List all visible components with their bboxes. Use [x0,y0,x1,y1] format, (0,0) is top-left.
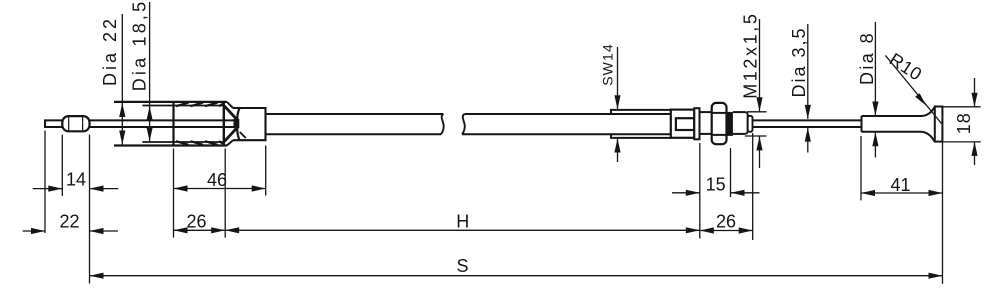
dimension line Dia 18,5 [147,2,153,142]
thread band [727,112,733,136]
housing internal divider [172,102,174,146]
extension line x730 [730,148,732,197]
svg-text:14: 14 [66,170,86,190]
cable end face (left) [44,119,46,128]
label 26 left [186,211,206,231]
extension line x89 [89,135,91,284]
extension line x752 [752,133,754,240]
extension line x265 [265,146,267,196]
label R10 [886,49,926,85]
break symbol left [441,114,444,134]
svg-text:46: 46 [207,170,227,190]
thread hatching top band [176,103,224,107]
label M12x1,5 [741,12,761,99]
label 26 right [716,211,736,231]
label H [456,211,469,231]
svg-text:SW14: SW14 [600,43,616,86]
svg-text:15: 15 [706,174,726,194]
rod Dia 8 [862,116,923,132]
label 15 [706,174,726,194]
svg-text:26: 26 [186,211,206,231]
R10 leader line [885,55,941,123]
extension line x45 [44,131,46,234]
dimension 26 left [174,227,226,233]
outer conduit left run [266,114,444,134]
extension line x173 [173,149,175,238]
extension lines M12 [745,112,767,136]
svg-text:22: 22 [59,212,79,232]
outer conduit right run [462,114,670,134]
dimension 46 [174,185,266,191]
conduit end cap [233,108,266,140]
bell housing bore lines (Dia 18,5) [142,106,224,143]
extension line x62 [61,135,63,197]
dimension H [225,227,700,233]
svg-text:S: S [456,256,468,276]
thread hatching bottom band [176,141,224,145]
label Dia 18,5 [129,0,149,91]
dimension line M12x1,5 [756,19,762,168]
cable nipple (barrel) [62,116,89,131]
label 41 [890,175,910,195]
label 22 [59,212,79,232]
svg-text:26: 26 [716,211,736,231]
dimension 14 [33,186,119,192]
dimension 22 [23,228,118,234]
svg-text:41: 41 [890,175,910,195]
break symbol right [462,114,465,134]
threaded stud left part [700,112,712,134]
dimension 26 right [700,227,753,233]
svg-text:Dia 8: Dia 8 [857,31,877,85]
label SW14 [600,43,616,86]
dimension 15 [672,190,760,196]
housing right end face [223,102,225,146]
bell housing outer shell (Dia 22) [114,102,233,146]
inner cable right segment [753,120,862,127]
extension line x225 [224,149,226,238]
threaded stud right part [733,112,748,134]
label 46 [207,170,227,190]
svg-text:M12x1,5: M12x1,5 [741,12,761,99]
crimp block [671,110,695,138]
svg-text:H: H [456,211,469,231]
stud end cap [748,116,753,132]
inner cable left segment [45,120,62,127]
dimension 41 [861,190,943,196]
dimension line Dia 8 [872,22,878,158]
dimension line Dia 3,5 [805,24,811,153]
crimp block slot [676,118,694,130]
label 14 [66,170,86,190]
svg-text:Dia 18,5: Dia 18,5 [129,0,149,91]
inner cable through bell housing [90,120,239,127]
hex nut [712,103,727,144]
mushroom head [935,107,943,142]
dimension line 18 [971,78,977,165]
dimension S [90,273,943,279]
svg-text:Dia 22: Dia 22 [100,16,120,86]
extension line x861 [860,136,862,200]
extension line x700 [699,143,701,239]
trumpet apex fill [234,119,246,138]
dimension line SW14 [614,47,620,162]
extension line x942 (head edge) [942,107,944,284]
svg-text:Dia 3,5: Dia 3,5 [789,26,809,97]
label 18 [954,112,974,134]
svg-text:18: 18 [954,112,974,134]
trumpet funnel diagonals [224,106,238,141]
R10 flare curves [921,107,934,141]
label S [456,256,468,276]
label Dia 3,5 [789,26,809,97]
SW14 hex sleeve [611,110,671,138]
extension lines 18 [943,107,981,142]
dimension line Dia 22 [119,14,125,145]
label Dia 22 [100,16,120,86]
crimp block flange lip [694,108,699,139]
label Dia 8 [857,31,877,85]
